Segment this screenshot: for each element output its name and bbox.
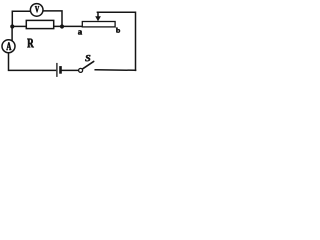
wire voltmeter branch left (corner from left node up to voltmeter) (12, 11, 31, 26)
battery long plate (56, 63, 58, 77)
voltmeter V (30, 4, 43, 17)
battery short thick plate (59, 66, 62, 74)
wire rheostat wiper to top line and right vertical down (97, 12, 135, 70)
wire battery to switch pivot (62, 69, 79, 71)
switch pivot circle (79, 68, 83, 72)
resistor R (26, 20, 53, 28)
ammeter A (2, 40, 15, 53)
wire main branch middle segment (resistor to rheostat) (54, 25, 83, 27)
label b (116, 28, 120, 33)
wire ammeter to bottom-left corner and bottom wire to battery (9, 52, 56, 70)
switch S (79, 61, 94, 72)
switch blade (83, 61, 94, 69)
battery cell (57, 63, 62, 77)
label R (27, 39, 34, 48)
wire main branch left segment (12, 25, 26, 27)
label a (78, 30, 82, 34)
wire switch to bottom-right corner (95, 69, 135, 72)
wire voltmeter branch right (from voltmeter down to right node) (43, 11, 62, 27)
node right junction (60, 24, 64, 28)
node left junction (10, 24, 14, 28)
rheostat wiper arrow (95, 16, 101, 21)
wire left node down to ammeter (11, 27, 13, 42)
label S (85, 55, 90, 61)
rheostat a-b (82, 22, 115, 27)
